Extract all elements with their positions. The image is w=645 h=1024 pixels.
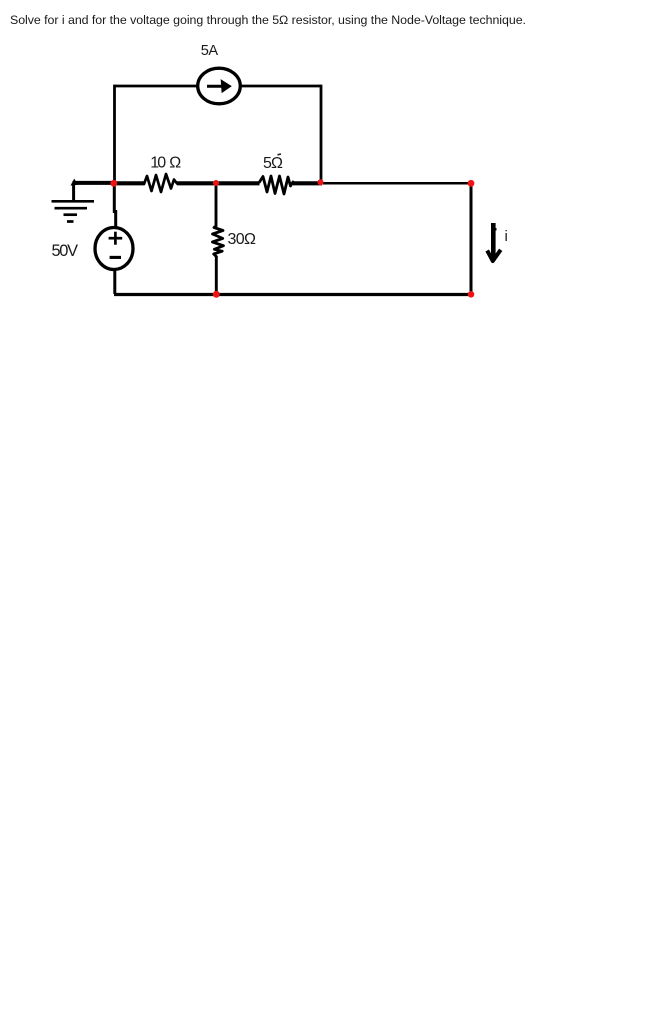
wire: bottom horizontal (114, 293, 471, 296)
svg-text:Ω: Ω (169, 154, 181, 171)
svg-text:30Ω: 30Ω (228, 231, 257, 248)
node dot F (bottom right) (468, 291, 475, 298)
wire: main node wire thin segment (to far right corner) (322, 182, 471, 185)
svg-text:5Ω: 5Ω (263, 155, 283, 172)
svg-text:i: i (505, 228, 508, 245)
current arrow i (hand-drawn) (487, 223, 501, 261)
node dot E (30-ohm bottom) (213, 291, 220, 298)
resistor R3 30-ohm (hand-drawn vertical zigzag) (212, 226, 223, 257)
svg-text:Solve for i and for the voltag: Solve for i and for the voltage going th… (10, 13, 526, 27)
resistor R2 5-ohm (hand-drawn zigzag) (260, 176, 294, 194)
wire: voltage source top lead with jog (114, 183, 115, 228)
wire: voltage source bottom lead (113, 269, 116, 294)
wire: main node wire thick segment (10-ohm to 5-ohm) (177, 181, 260, 185)
wire: top loop right vertical (320, 85, 323, 183)
wire: right vertical (470, 183, 473, 294)
wire: 30-ohm branch bottom lead (215, 256, 218, 294)
wire: main node wire segment (5-ohm to right loop corner) (293, 181, 322, 185)
node dot A (left junction) (110, 180, 117, 187)
arrow tip at left wire end (71, 179, 79, 186)
wire: bottom-left vertical corner piece (115, 292, 471, 294)
wire: top loop right horizontal (current source to right corner) (241, 85, 321, 88)
wire: top loop left horizontal (node to current source) (115, 85, 199, 88)
node dot D (far right top) (468, 180, 475, 187)
ground symbol (52, 201, 95, 221)
stray tick above 5-ohm label (278, 153, 282, 156)
wire: main node wire thick segment (node A to 10-ohm) (112, 181, 144, 185)
node dot C (5-ohm / top loop junction) (318, 179, 324, 185)
wire: top loop left vertical (113, 85, 116, 183)
ground stub wire (72, 184, 75, 201)
svg-text:10: 10 (150, 154, 166, 171)
wire: main node wire, far-left segment with arrow tip (73, 181, 115, 185)
voltage source V1 50V (95, 228, 133, 270)
node dot B (30-ohm junction) (213, 180, 219, 186)
svg-text:5A: 5A (201, 43, 219, 59)
resistor R1 10-ohm (hand-drawn zigzag) (144, 174, 177, 192)
current source I1 5A (circle with right arrow) (198, 68, 241, 104)
svg-text:50V: 50V (52, 242, 79, 260)
wire: 30-ohm branch top lead (215, 183, 218, 226)
